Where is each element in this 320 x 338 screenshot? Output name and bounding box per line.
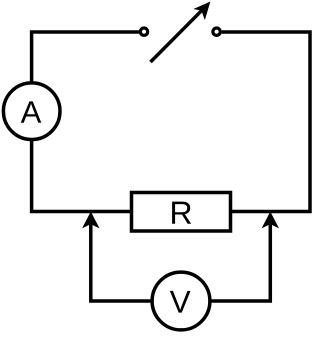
switch S1 right terminal circle [213,28,220,35]
voltmeter U2 circle [152,272,210,330]
ammeter label A [21,101,42,122]
left probe arrowhead at node between ammeter and resistor [83,213,98,228]
wire: top-left from corner to switch left terminal [32,32,139,82]
voltmeter label V [170,291,191,313]
right probe arrowhead at node between resistor and battery return [263,213,278,228]
ammeter U1 circle [3,83,60,140]
switch S1 left terminal circle [140,28,147,35]
switch S1 blade arrowhead [195,2,210,18]
wire: voltmeter right lead to right probe shaft [210,222,271,302]
resistor R1 box [132,193,231,232]
switch S1 blade [151,11,202,62]
wire: ammeter bottom down to bottom-left corner and right to resistor left [32,139,131,211]
wire: voltmeter left lead to left probe shaft [91,222,153,302]
wire: switch right terminal to top-right corner down to resistor right [222,32,310,212]
resistor label R [172,202,191,224]
